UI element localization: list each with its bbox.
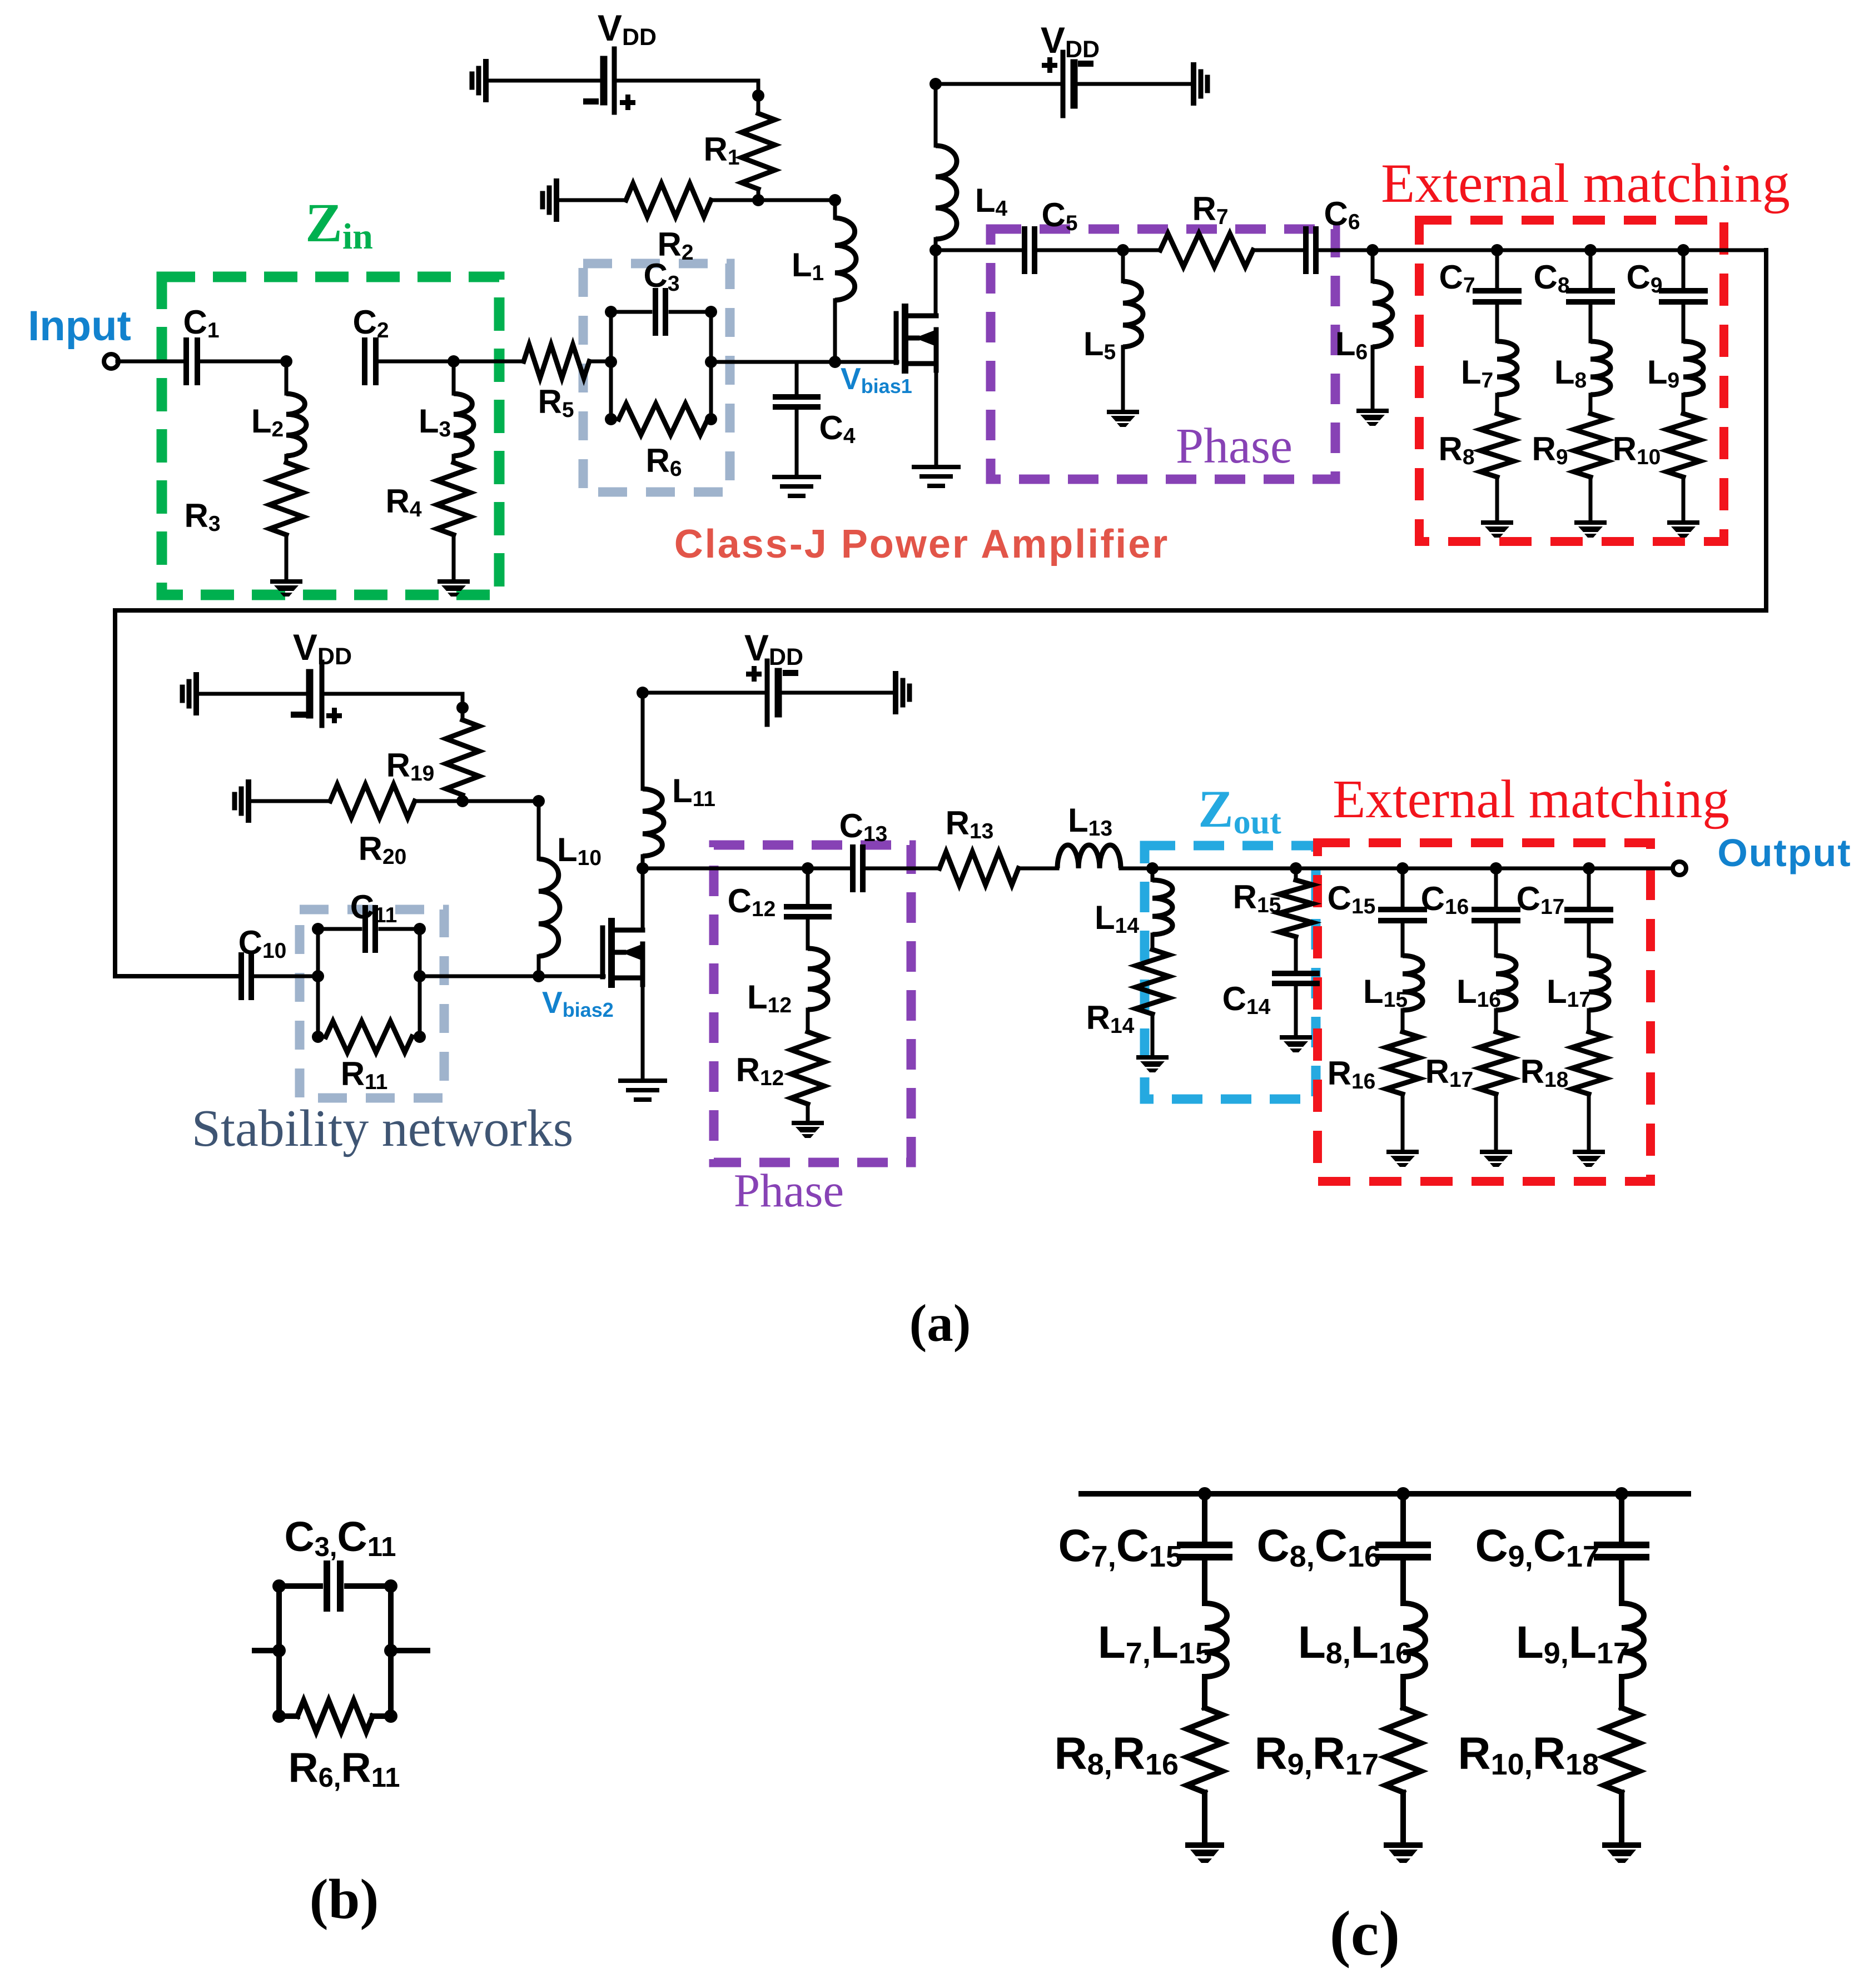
label R10,R18 — [1458, 1728, 1599, 1781]
label R14 — [1086, 999, 1135, 1038]
label C12 — [728, 882, 776, 921]
wire — [1401, 1094, 1405, 1149]
label Stability networks — [192, 1100, 574, 1157]
label R20 — [359, 830, 407, 869]
resistor R5 — [524, 345, 589, 378]
wire — [318, 927, 360, 931]
wire — [1619, 1677, 1624, 1708]
label R11 — [341, 1055, 388, 1094]
label R19 — [386, 747, 435, 786]
label C15 — [1328, 879, 1376, 918]
resistor R4 — [437, 463, 470, 535]
wire — [279, 1583, 320, 1589]
label C1 — [183, 304, 219, 342]
resistor R17 — [1479, 1032, 1513, 1094]
node junction — [829, 194, 841, 206]
label R4 — [385, 483, 421, 521]
label VDD — [293, 627, 352, 670]
transistor Q1 (MOSFET) — [896, 307, 936, 370]
label R8 — [1438, 430, 1474, 469]
label L14 — [1095, 899, 1139, 938]
node junction — [929, 78, 942, 90]
wire — [418, 929, 422, 1037]
wire — [322, 694, 463, 720]
label C16 — [1421, 880, 1469, 919]
wire — [1401, 868, 1405, 907]
resistor R9,R17 (fig c) — [1385, 1708, 1421, 1792]
wire — [1400, 1792, 1406, 1841]
wire — [936, 248, 1022, 252]
label C9,C17 — [1475, 1520, 1599, 1573]
node junction — [752, 194, 764, 206]
node junction — [533, 795, 545, 807]
capacitor C17 — [1567, 909, 1610, 921]
wire — [711, 198, 758, 202]
ground — [543, 181, 556, 219]
label R2 — [657, 226, 693, 265]
wire — [758, 198, 835, 202]
label C13 — [839, 807, 888, 846]
resistor R11 — [326, 1021, 412, 1052]
wire — [641, 693, 645, 789]
inductor L2 — [286, 394, 306, 456]
ground — [1136, 1055, 1169, 1072]
capacitor C13 — [853, 847, 863, 889]
node junction — [637, 687, 649, 699]
ground — [914, 467, 958, 486]
ground — [1107, 410, 1139, 427]
label R3 — [184, 497, 220, 536]
capacitor C1 — [186, 340, 197, 382]
inductor L3 — [454, 394, 474, 456]
label Class-J Power Amplifier — [674, 522, 1170, 566]
wire — [197, 360, 286, 364]
ground — [472, 62, 486, 100]
inductor L4 — [936, 146, 957, 239]
ground — [774, 477, 819, 496]
node junction — [1490, 862, 1595, 874]
label VDD — [744, 627, 803, 670]
node junction — [1396, 862, 1409, 874]
label minus — [583, 98, 599, 105]
inductor L1 — [835, 218, 856, 300]
label Vbias1 — [841, 361, 912, 397]
resistor R10,R18 (fig c) — [1604, 1708, 1639, 1792]
label L13 — [1068, 802, 1112, 841]
wire — [795, 362, 799, 397]
label L12 — [747, 978, 792, 1017]
node junction — [929, 244, 942, 256]
wire — [1589, 477, 1593, 519]
label C4 — [819, 409, 855, 448]
label L4 — [975, 182, 1008, 221]
label L6 — [1335, 325, 1368, 364]
resistor R6 — [619, 404, 708, 435]
wire — [1152, 867, 1296, 871]
wire — [934, 364, 938, 466]
wire — [285, 456, 289, 463]
svg-text:Phase: Phase — [734, 1165, 844, 1217]
label L9 — [1647, 354, 1679, 392]
wire — [537, 956, 541, 976]
wire — [285, 535, 289, 579]
wire — [1682, 477, 1686, 519]
label (c) — [1330, 1898, 1400, 1969]
wire — [380, 927, 420, 931]
label C17 — [1517, 880, 1565, 919]
label L1 — [792, 246, 824, 285]
wire — [1018, 867, 1057, 871]
wire — [1074, 82, 1194, 86]
wire — [537, 801, 541, 859]
label Vbias2 — [542, 985, 614, 1021]
wire — [248, 799, 330, 803]
ground — [792, 1121, 824, 1138]
wire — [1253, 248, 1303, 252]
label plus — [326, 708, 342, 723]
wire — [1121, 347, 1125, 409]
label minus — [1078, 61, 1093, 67]
wire — [376, 360, 454, 364]
resistor R15 — [1279, 880, 1313, 937]
node junction — [1117, 244, 1129, 256]
wire — [1121, 867, 1152, 871]
wire — [1081, 1491, 1688, 1497]
wire — [1401, 1010, 1405, 1032]
label L15 — [1363, 973, 1408, 1012]
wire — [1151, 935, 1155, 950]
wire — [1401, 921, 1405, 956]
wire — [388, 1586, 394, 1716]
wire — [1400, 1677, 1406, 1708]
wire — [1151, 1014, 1155, 1054]
label L3 — [419, 402, 451, 441]
wire — [556, 198, 626, 202]
wire — [1494, 1010, 1498, 1032]
wire — [833, 200, 837, 218]
wire — [806, 868, 810, 906]
wire — [609, 312, 613, 419]
ground — [1280, 1035, 1312, 1052]
label Phase — [734, 1165, 844, 1217]
battery VDD stage2 gate bias — [310, 662, 322, 725]
resistor R8 — [1480, 414, 1514, 477]
wire — [808, 867, 849, 871]
label (a) — [909, 1294, 971, 1353]
label C10 — [238, 924, 287, 963]
Zout box (cyan dashed) — [1145, 846, 1316, 1099]
inductor L9,L17 (fig c) — [1622, 1603, 1644, 1677]
ground — [1574, 520, 1607, 538]
wire — [276, 1586, 282, 1716]
wire — [1400, 1494, 1406, 1540]
wire — [778, 691, 896, 695]
resistor R3 — [270, 463, 303, 535]
svg-text:Input: Input — [28, 302, 131, 350]
label L5 — [1083, 325, 1116, 364]
label R10 — [1613, 430, 1661, 469]
wire — [1202, 1494, 1207, 1540]
node junction — [533, 970, 545, 982]
wire — [1316, 248, 1373, 252]
wire — [1587, 921, 1591, 956]
ground — [1481, 520, 1513, 538]
wire — [1619, 1792, 1624, 1841]
wire — [643, 867, 805, 871]
wire — [463, 799, 539, 803]
capacitor C16 — [1474, 909, 1518, 921]
wire — [641, 868, 645, 930]
capacitor C8,C16 (fig c) — [1379, 1545, 1428, 1557]
label L16 — [1457, 973, 1501, 1012]
label C3 — [643, 257, 679, 296]
wire — [641, 856, 645, 868]
label L7 — [1461, 354, 1493, 392]
wire — [1202, 1557, 1207, 1603]
node junction — [1198, 1487, 1628, 1500]
node B junction — [448, 355, 460, 367]
stability network box 2 (gray dashed) — [300, 909, 444, 1098]
wire — [757, 189, 760, 200]
wire — [1035, 248, 1123, 252]
resistor R10 — [1667, 414, 1700, 477]
wire — [115, 250, 1766, 976]
wire — [1619, 1557, 1624, 1603]
capacitor C8 — [1569, 291, 1612, 302]
label C9 — [1626, 259, 1662, 297]
node A junction — [280, 355, 292, 367]
label R1 — [703, 131, 739, 170]
resistor R2 — [626, 183, 711, 217]
wire — [641, 978, 645, 1080]
resistor R13 — [940, 852, 1018, 885]
label External matching — [1381, 152, 1790, 214]
inductor L14 — [1152, 880, 1172, 935]
ground — [1185, 1842, 1224, 1863]
label C7 — [1439, 259, 1475, 297]
wire — [806, 1104, 810, 1120]
capacitor C7,C15 (fig c) — [1180, 1545, 1229, 1557]
resistor R1 — [742, 113, 775, 189]
phase network box 2 (purple dashed) — [714, 845, 911, 1162]
wire — [1682, 395, 1686, 414]
label External matching — [1333, 769, 1729, 829]
wire — [1495, 395, 1499, 414]
node junction — [456, 795, 469, 807]
wire — [1494, 868, 1498, 907]
inductor L6 — [1373, 281, 1393, 347]
label VDD — [598, 7, 657, 51]
ground — [620, 1081, 665, 1100]
capacitor C5 — [1025, 229, 1035, 271]
resistor R18 — [1572, 1032, 1605, 1094]
wire — [452, 456, 456, 463]
wire — [1494, 921, 1498, 956]
label C5 — [1041, 196, 1077, 235]
label R6 — [645, 442, 682, 481]
wire — [1619, 1494, 1624, 1540]
capacitor C3 — [655, 291, 665, 333]
label Output — [1717, 831, 1851, 874]
inductor L9 — [1683, 341, 1703, 395]
label Zout — [1198, 779, 1281, 841]
svg-text:(c): (c) — [1330, 1898, 1400, 1969]
wire — [420, 975, 604, 978]
ground — [438, 579, 470, 597]
label R16 — [1328, 1055, 1376, 1094]
label C8,C16 — [1256, 1520, 1381, 1573]
inductor L15 — [1403, 956, 1423, 1010]
wire — [711, 360, 897, 364]
inductor L8,L16 (fig c) — [1403, 1603, 1425, 1677]
wire — [415, 799, 463, 803]
label L11 — [672, 772, 715, 811]
label R17 — [1425, 1053, 1474, 1092]
label L17 — [1547, 973, 1591, 1012]
capacitor C6 — [1306, 229, 1316, 271]
wire — [934, 84, 938, 146]
label R8,R16 — [1054, 1728, 1179, 1781]
label minus — [291, 712, 306, 718]
Zin matching box (green dashed) — [162, 277, 499, 595]
wire — [279, 1713, 297, 1719]
label Phase — [1176, 419, 1293, 474]
label (b) — [310, 1868, 379, 1931]
label plus — [746, 666, 762, 682]
wire — [1589, 395, 1593, 414]
wire — [316, 929, 320, 1037]
svg-text:External matching: External matching — [1333, 769, 1729, 829]
capacitor C4 — [776, 397, 818, 407]
label R6,R11 — [288, 1744, 400, 1793]
wire — [255, 1648, 279, 1653]
resistor R19 — [446, 720, 479, 795]
label C3,C11 — [284, 1513, 396, 1562]
wire — [611, 310, 650, 314]
node junction — [1491, 244, 1689, 256]
resistor R7 — [1160, 233, 1253, 267]
wire — [863, 867, 940, 871]
wire — [670, 310, 711, 314]
wire — [1403, 867, 1674, 871]
ground — [270, 579, 302, 597]
wire — [1589, 302, 1593, 341]
inductor L11 — [643, 789, 664, 856]
external matching box 2 (red dashed) — [1318, 843, 1651, 1181]
wire — [1587, 1010, 1591, 1032]
phase network box 1 (purple dashed) — [991, 229, 1335, 479]
resistor R20 — [330, 784, 415, 818]
battery VDD stage1 drain supply — [1063, 52, 1074, 116]
wire — [589, 360, 611, 364]
battery VDD stage1 gate bias — [604, 49, 614, 112]
wire — [936, 82, 1063, 86]
resistor R12 — [791, 1032, 824, 1104]
wire — [934, 239, 938, 250]
wire — [934, 250, 938, 315]
svg-text:Output: Output — [1717, 831, 1851, 874]
label L8,L16 — [1298, 1617, 1412, 1670]
inductor L7 — [1497, 341, 1517, 395]
capacitor C9 — [1662, 291, 1705, 302]
ground — [1194, 65, 1207, 103]
node junction — [802, 862, 814, 874]
svg-text:(b): (b) — [310, 1868, 379, 1931]
wire — [1151, 868, 1155, 880]
capacitor C15 — [1381, 909, 1424, 921]
wire — [833, 300, 837, 362]
label C8 — [1533, 259, 1569, 297]
inductor L17 — [1589, 956, 1609, 1010]
resistor R16 — [1386, 1032, 1419, 1094]
ground — [1667, 520, 1699, 538]
label C11 — [350, 888, 397, 927]
wire — [1373, 248, 1766, 252]
resistor R8,R16 (fig c) — [1187, 1708, 1222, 1792]
wire — [1587, 868, 1591, 907]
wire — [391, 1648, 428, 1653]
wire — [1494, 1094, 1498, 1149]
wire — [1294, 868, 1298, 880]
label C2 — [352, 304, 389, 342]
wire — [611, 418, 619, 421]
label R12 — [736, 1051, 784, 1090]
inductor L7,L15 (fig c) — [1205, 1603, 1227, 1677]
label R5 — [538, 383, 574, 422]
wire — [1202, 1677, 1207, 1708]
wire — [372, 1713, 391, 1719]
wire — [1123, 248, 1160, 252]
label minus — [783, 670, 798, 676]
output terminal — [1673, 862, 1686, 875]
svg-text:Stability networks: Stability networks — [192, 1100, 574, 1157]
capacitor C9,C17 (fig c) — [1597, 1545, 1646, 1557]
capacitor C14 — [1275, 973, 1317, 983]
inductor L5 — [1123, 281, 1143, 347]
wire — [196, 692, 310, 696]
node junction — [1146, 862, 1159, 874]
wire — [1495, 477, 1499, 519]
label Input — [28, 302, 131, 350]
battery VDD stage2 drain supply — [767, 661, 778, 724]
capacitor C7 — [1475, 291, 1519, 302]
wire — [1371, 250, 1375, 281]
wire — [806, 917, 810, 948]
wire — [1296, 867, 1403, 871]
wire — [251, 975, 318, 978]
label L2 — [251, 402, 284, 441]
ground — [1602, 1842, 1641, 1863]
wire — [454, 360, 524, 364]
wire — [1294, 937, 1298, 972]
ground — [235, 782, 248, 820]
label VDD — [1041, 19, 1100, 63]
label C7,C15 — [1058, 1520, 1182, 1573]
label L8 — [1554, 354, 1587, 392]
wire — [486, 79, 604, 83]
node junction — [1290, 862, 1302, 874]
resistor R9 — [1574, 414, 1607, 477]
wire — [412, 1035, 420, 1039]
label R15 — [1233, 878, 1281, 917]
wire — [1400, 1557, 1406, 1603]
wire — [795, 407, 799, 476]
inductor L13 — [1057, 845, 1121, 868]
label R7 — [1192, 190, 1228, 229]
label Zin — [305, 192, 373, 257]
wire — [1682, 250, 1686, 289]
label plus — [620, 95, 635, 110]
